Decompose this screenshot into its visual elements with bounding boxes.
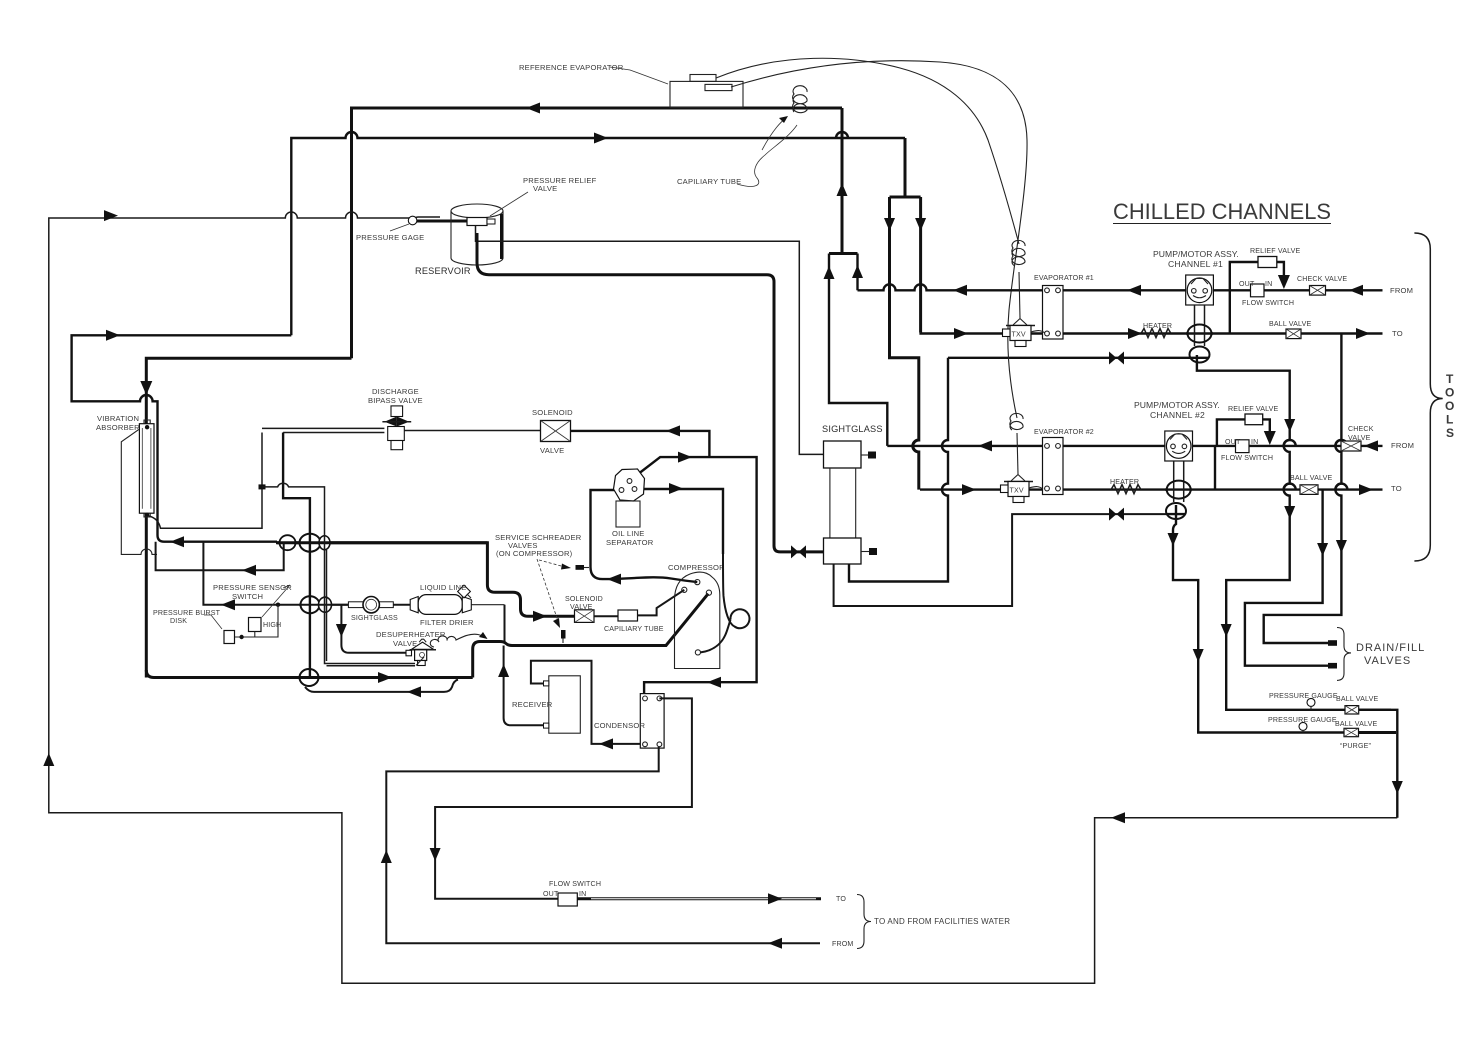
arrow right TO facilities (768, 893, 782, 904)
arrow left suction return (407, 686, 421, 697)
wire liquid line to drier (393, 604, 410, 606)
flow switch water (558, 893, 577, 906)
wire compressor discharge hose (613, 577, 697, 582)
flow switch ch2 (1236, 440, 1250, 453)
liquid line left segment (203, 542, 348, 605)
wire pump2 bottom drop (1173, 519, 1391, 733)
absorber bracket (121, 430, 157, 555)
svg-text:CHECK: CHECK (1348, 425, 1374, 433)
arrow down water out (430, 848, 441, 861)
svg-text:S: S (1446, 426, 1454, 440)
node FROM channel 1 line (858, 284, 1383, 290)
hop FROM2 over x1289.7 (1284, 440, 1296, 446)
wire flow switch to TO facilities (577, 897, 821, 900)
sensing bulb coil at reference evaporator (793, 86, 807, 113)
svg-text:CHECK VALVE: CHECK VALVE (1297, 275, 1347, 283)
reservoir body (451, 211, 503, 265)
wire capillary to compressor port Z (638, 590, 685, 616)
arrow down x1198.2 (1193, 649, 1204, 662)
wire gauge header 1 to purge drop (1359, 710, 1398, 818)
sightglass bottom stub (861, 551, 869, 553)
desuperheater valve (406, 639, 436, 665)
service schreader tick on suction (561, 630, 566, 639)
leader reference evaporator (610, 67, 668, 84)
evaporator 1 ports (1045, 288, 1050, 293)
discharge bypass valve (382, 406, 540, 450)
svg-text:LIQUID LINE: LIQUID LINE (420, 583, 467, 592)
arrow left FROM1 end (1349, 285, 1363, 296)
TXV1 sensing coil (1012, 240, 1025, 266)
arrow left FROM facilities (768, 938, 782, 949)
outer loop thin line from reservoir gauge west (49, 212, 1398, 983)
arrow down relief ch1 (1278, 275, 1290, 289)
leader schreader 2 (539, 560, 565, 567)
leader schreader 1 (537, 559, 559, 624)
reference evaporator top fitting 1 (690, 75, 716, 82)
receiver stubs (544, 681, 549, 686)
wire suction branch right to FROM ch1 (856, 254, 858, 291)
arrow right on reservoir feed line (104, 210, 118, 221)
arrow right TO2 a (962, 484, 976, 495)
leader pressure gage (390, 224, 409, 231)
relief valve ch2 loop (1217, 419, 1270, 446)
svg-text:BALL VALVE: BALL VALVE (1290, 474, 1332, 482)
svg-text:RELIEF VALVE: RELIEF VALVE (1250, 247, 1301, 255)
svg-text:BALL VALVE: BALL VALVE (1335, 720, 1377, 728)
svg-text:HEATER: HEATER (1110, 478, 1139, 486)
svg-text:PUMP/MOTOR ASSY.: PUMP/MOTOR ASSY. (1153, 249, 1239, 259)
service schreader tick on discharge drop (576, 565, 585, 570)
arrow up on left outer loop (43, 753, 54, 766)
svg-text:COMPRESSOR: COMPRESSOR (668, 563, 725, 572)
compressor oil hose with loop (701, 620, 731, 653)
ball valve ch2 (1300, 485, 1318, 495)
svg-text:VALVE: VALVE (570, 603, 593, 611)
discharge bypass double line (262, 428, 384, 432)
reservoir top ellipse (451, 204, 503, 218)
arrow down on evap riser right (915, 218, 926, 231)
junction node high-switch branch (276, 603, 280, 607)
svg-text:PRESSURE BURST: PRESSURE BURST (153, 609, 221, 617)
facilities brace (857, 895, 871, 949)
svg-text:T: T (1446, 372, 1454, 386)
wire reservoir bottom heavy line to purge header (477, 233, 824, 552)
sightglass circle (363, 597, 379, 613)
arrow right TO1 end (1356, 328, 1370, 339)
bowtie valve on crossover ch1 (1109, 352, 1117, 365)
pilot line to thin riser (262, 483, 415, 665)
arrow left on suction line (170, 536, 184, 547)
wire crossover ch1 right part (948, 357, 1192, 359)
svg-text:HEATER: HEATER (1143, 322, 1172, 330)
svg-text:CHANNEL #1: CHANNEL #1 (1168, 259, 1223, 269)
pressure gauge 1 (1307, 698, 1315, 706)
wire condenser water out (435, 698, 692, 898)
svg-text:OIL LINE: OIL LINE (612, 529, 645, 538)
svg-text:HIGH: HIGH (263, 621, 281, 629)
check valve ch2 (1341, 441, 1361, 451)
svg-text:VALVE: VALVE (533, 184, 557, 193)
drain/fill brace (1337, 628, 1351, 681)
leader sensor switch (262, 585, 290, 617)
arrow down x1226.2 (1221, 624, 1232, 637)
wire purge to drop thick (1359, 731, 1397, 734)
arrow right TO1 a (954, 328, 968, 339)
arrow down x1341.4 (1336, 540, 1347, 553)
pressure gauge 2 (1299, 722, 1307, 730)
arrow right lower solenoid feed (533, 611, 547, 622)
svg-text:PRESSURE SENSOR: PRESSURE SENSOR (213, 583, 292, 592)
arrow left trap loop (242, 565, 256, 576)
svg-text:VALVE: VALVE (540, 446, 564, 455)
svg-text:RESERVOIR: RESERVOIR (415, 266, 471, 276)
svg-text:PUMP/MOTOR ASSY.: PUMP/MOTOR ASSY. (1134, 400, 1220, 410)
arrow left FROM2 end (1364, 440, 1378, 451)
TXV1 capillary drop (1019, 272, 1020, 318)
arrow down relief ch2 (1264, 431, 1276, 445)
oil line separator octagon (614, 469, 645, 501)
wire oil separator left branch (591, 490, 622, 579)
relief valve ch1 body (1258, 257, 1277, 268)
riser pump1 from-to (1229, 290, 1231, 333)
wire header H2 (291, 132, 905, 335)
TXV2 capillary drop (1017, 433, 1018, 474)
svg-text:PRESSURE GAUGE: PRESSURE GAUGE (1269, 692, 1338, 700)
union bulges at liquid line crossing (299, 595, 348, 614)
svg-text:PRESSURE GAUGE: PRESSURE GAUGE (1268, 716, 1337, 724)
wire suction branch left to FROM ch2 (829, 254, 887, 446)
wire TO channel 2 line (920, 488, 1383, 490)
pump/motor assy channel 1 (1186, 275, 1214, 305)
wire suction main bottom (146, 670, 472, 678)
wire V3 evaporator feed (904, 138, 907, 197)
arrow down x1289.7 lower (1284, 506, 1295, 519)
wire solenoid to capillary tube (594, 615, 618, 617)
ball valve ch1 (1286, 329, 1301, 339)
wire TO channel 1 line (921, 331, 1383, 334)
pressure burst disk box (224, 631, 235, 644)
arrow down pump2 drop (1168, 533, 1179, 546)
svg-text:TO: TO (836, 895, 846, 903)
evaporator riser pair top bar (890, 196, 921, 199)
svg-text:OUT: OUT (1239, 280, 1255, 288)
arrow left condenser to receiver (599, 738, 613, 749)
pump1 discharge risers (1195, 305, 1205, 325)
svg-text:O: O (1445, 386, 1454, 400)
bowtie valve on sightglass bottom feed (791, 545, 799, 558)
svg-text:DISCHARGE: DISCHARGE (372, 387, 419, 396)
wire bypass inner leg (283, 433, 310, 671)
arrow left FROM1 a (953, 285, 967, 296)
heater channel 1 (1141, 329, 1171, 338)
wire oil separator top branch (631, 457, 757, 694)
capillary sensing curve A to TXV1 coil (716, 58, 1019, 244)
svg-text:CAPILIARY TUBE: CAPILIARY TUBE (604, 625, 664, 633)
svg-text:OUT: OUT (1225, 438, 1241, 446)
svg-text:TXV: TXV (1010, 487, 1024, 495)
svg-text:“PURGE”: “PURGE” (1340, 742, 1371, 750)
wire high switch branch (234, 605, 278, 637)
hop of H2 over V2 (836, 132, 848, 138)
wire TO1 drop x1341.4 (1264, 334, 1342, 644)
junction dot at burst disk (239, 635, 243, 639)
wire FROM facilities (386, 747, 820, 943)
arrow down into absorber (140, 381, 152, 395)
wire evap riser right (919, 197, 922, 333)
svg-text:IN: IN (579, 890, 586, 898)
arrow right suction main (378, 672, 392, 683)
svg-text:SOLENOID: SOLENOID (565, 595, 603, 603)
condenser plate (640, 694, 664, 749)
TXV 2 valve (1001, 475, 1044, 503)
leader burst disk (204, 615, 222, 629)
wire suction return lower (305, 680, 458, 692)
evaporator 2 plate (1043, 438, 1064, 495)
wire TO2 drop x1322.6 (1245, 490, 1328, 666)
svg-text:RELIEF VALVE: RELIEF VALVE (1228, 405, 1279, 413)
evaporator 1 plate (1043, 286, 1064, 340)
wire reservoir relief thin line to sightglass top (476, 226, 824, 455)
sightglass top stub (861, 454, 869, 456)
svg-text:CHANNEL #2: CHANNEL #2 (1150, 410, 1205, 420)
vibration absorber body (139, 420, 154, 517)
bowtie valve on drain crossover ch2 (1109, 508, 1117, 521)
arrow down on purge drop (1392, 781, 1403, 794)
svg-text:IN: IN (1251, 438, 1258, 446)
arrow down x1289.7 upper (1284, 419, 1295, 432)
wire hot gas to solenoid (lower) (277, 543, 575, 617)
svg-text:REFERENCE EVAPORATOR: REFERENCE EVAPORATOR (519, 63, 624, 72)
svg-text:CONDENSOR: CONDENSOR (594, 721, 645, 730)
arrow right oil sep top branch (678, 452, 692, 463)
svg-text:EVAPORATOR #1: EVAPORATOR #1 (1034, 274, 1094, 282)
drain/fill tick 2 (1328, 663, 1337, 669)
arrow left on discharge hose (607, 574, 621, 585)
sightglass suction header bar (829, 252, 858, 255)
svg-text:L: L (1446, 413, 1453, 427)
arrow up suction branch right (852, 265, 863, 278)
wire evap riser left (890, 197, 919, 490)
svg-text:SOLENOID: SOLENOID (532, 408, 573, 417)
svg-text:FROM: FROM (1390, 286, 1413, 295)
wire compressor suction riser (473, 594, 709, 678)
wire solenoid to drop x709.4 (571, 431, 710, 457)
pump2 discharge risers (1174, 461, 1184, 481)
reservoir right heavy wall (500, 214, 503, 259)
hop TO2 over x1289.7 (1284, 484, 1296, 490)
svg-text:CAPILIARY TUBE: CAPILIARY TUBE (677, 177, 741, 186)
arrow left on purge return line (1111, 812, 1125, 823)
sightglass bottom flange (824, 538, 862, 564)
absorber pilot capillary (149, 433, 262, 529)
filter drier (410, 585, 504, 614)
sightglass body (830, 468, 856, 538)
arrow left liquid line (221, 599, 235, 610)
arrow right oil sep right branch (669, 483, 683, 494)
svg-text:VALVE: VALVE (393, 639, 417, 648)
svg-text:EVAPORATOR #2: EVAPORATOR #2 (1034, 428, 1094, 436)
wire receiver return riser (504, 646, 545, 726)
capillary sensing curve B to TXV2 coil (731, 61, 1027, 418)
arrow left condenser feed (707, 677, 721, 688)
svg-text:VIBRATION: VIBRATION (97, 414, 139, 423)
svg-text:BIPASS VALVE: BIPASS VALVE (368, 396, 423, 405)
pump1 coupling bulge lower (1190, 347, 1210, 363)
wire receiver top to condenser (531, 661, 641, 744)
svg-text:CHILLED CHANNELS: CHILLED CHANNELS (1113, 199, 1331, 224)
union bulge at x310 on hot gas line (276, 533, 487, 552)
receiver vessel (549, 676, 581, 733)
oil separator ports (627, 479, 632, 484)
desuperheater bulb coil (430, 634, 486, 647)
sightglass (liquid line) stubs (348, 602, 364, 608)
pump1 coupling bulge upper (1188, 325, 1212, 343)
heater channel 2 (1111, 485, 1141, 494)
relief valve ch2 body (1245, 414, 1263, 425)
arrow left FROM1 b (1127, 285, 1141, 296)
arrow up receiver riser (498, 664, 509, 677)
svg-text:ABSORBER: ABSORBER (96, 423, 140, 432)
wire discharge return leg (72, 335, 292, 541)
svg-text:VALVES: VALVES (1364, 655, 1411, 667)
check valve ch1 (1310, 286, 1326, 296)
svg-text:(ON COMPRESSOR): (ON COMPRESSOR) (496, 549, 573, 558)
wire V1 elbow to vibration absorber (146, 358, 351, 677)
TXV2 sensing coil (1010, 413, 1023, 430)
svg-text:FROM: FROM (832, 940, 853, 948)
flow switch ch1 (1251, 284, 1265, 297)
drain/fill tick 1 (1328, 640, 1337, 646)
capillary arrowhead (762, 118, 786, 150)
evaporator 2 ports (1045, 444, 1050, 449)
svg-text:DRAIN/FILL: DRAIN/FILL (1356, 642, 1425, 654)
compressor ports (695, 580, 700, 585)
svg-text:BALL VALVE: BALL VALVE (1269, 320, 1311, 328)
wire FROM channel 2 line (887, 445, 1382, 447)
junction tick pilot (259, 484, 266, 489)
arrow down x1322.6 (1317, 543, 1328, 556)
pressure relief valve body (467, 218, 487, 226)
TXV 1 valve (1003, 319, 1046, 347)
wire top hot-gas header H1 (352, 108, 843, 358)
arrow down desuper branch (336, 624, 347, 637)
desuperheater feed branch (341, 605, 410, 653)
capillary tube block (618, 610, 638, 621)
wire sightglass drain (834, 514, 1169, 606)
wire V2 down to sightglass header bar (841, 108, 844, 254)
wire liquid line drop to receiver junction (504, 605, 506, 642)
solenoid valve top (541, 421, 571, 442)
arrow right on return leg (106, 330, 120, 341)
svg-text:SWITCH: SWITCH (232, 592, 263, 601)
wire crossover riser x948 down to sightglass drain (849, 358, 948, 582)
svg-text:TO AND FROM FACILITIES WAT: TO AND FROM FACILITIES WATER (874, 917, 1010, 926)
capillary tube curve near reservoir (737, 125, 797, 186)
condenser ports (643, 696, 648, 701)
arrow up suction branch left (824, 266, 835, 279)
high pressure switch box (249, 618, 262, 632)
sightglass top flange (824, 441, 862, 468)
svg-text:PRESSURE GAGE: PRESSURE GAGE (356, 233, 424, 242)
arrow right TO2 end (1359, 484, 1373, 495)
ball valve purge header 1 (1345, 706, 1359, 714)
hop TO2 over x1341.4 (1335, 484, 1347, 490)
svg-text:O: O (1445, 399, 1454, 413)
arrow up water return riser (381, 850, 392, 863)
arrow right on H2 (594, 133, 608, 144)
suction trap loop (156, 542, 284, 571)
wire oil separator right branch (635, 489, 724, 554)
arrow left FROM2 a (978, 440, 992, 451)
svg-text:DESUPERHEATER: DESUPERHEATER (376, 630, 446, 639)
svg-text:SIGHTGLASS: SIGHTGLASS (351, 614, 398, 622)
arrow down on evap riser left (884, 218, 895, 231)
svg-text:OUT: OUT (543, 890, 559, 898)
svg-text:RECEIVER: RECEIVER (512, 700, 553, 709)
svg-text:BALL VALVE: BALL VALVE (1336, 695, 1378, 703)
leader pressure relief valve (490, 192, 528, 216)
pressure gage circle (408, 216, 417, 225)
pump/motor assy channel 2 (1165, 431, 1193, 461)
ball valve purge (1344, 728, 1359, 736)
svg-text:FLOW SWITCH: FLOW SWITCH (549, 880, 601, 888)
wire pump1 bottom to cross header (1197, 363, 1391, 710)
svg-text:TO: TO (1392, 329, 1403, 338)
svg-text:FILTER DRIER: FILTER DRIER (420, 618, 474, 627)
reference evaporator top fitting 2 (705, 84, 732, 90)
svg-text:DISK: DISK (170, 617, 187, 625)
svg-text:TO: TO (1391, 484, 1402, 493)
reference evaporator box (670, 81, 743, 107)
svg-text:VALVE: VALVE (1348, 434, 1371, 442)
pump2 coupling bulge lower (1166, 503, 1186, 519)
svg-text:TXV: TXV (1012, 331, 1026, 339)
riser pump2 from-to (1214, 446, 1216, 490)
svg-text:FROM: FROM (1391, 441, 1414, 450)
arrow right TO1 b (1128, 328, 1142, 339)
compressor body (675, 572, 720, 668)
hop FROM2 over x1341.4 (1335, 440, 1347, 446)
arrow left on H1 (526, 103, 540, 114)
arrow up on V2 (837, 183, 848, 196)
union bulge suction at x306 (300, 669, 319, 686)
oil hose loop circle (723, 554, 749, 628)
svg-text:SIGHTGLASS: SIGHTGLASS (822, 424, 883, 434)
pump2 coupling bulge upper (1167, 481, 1191, 499)
arrow left on bypass line (666, 425, 680, 436)
svg-text:SEPARATOR: SEPARATOR (606, 538, 654, 547)
svg-text:FLOW SWITCH: FLOW SWITCH (1242, 299, 1294, 307)
svg-text:IN: IN (1265, 280, 1272, 288)
solenoid valve lower (575, 610, 595, 623)
relief valve ch1 loop (1230, 262, 1284, 290)
svg-text:FLOW SWITCH: FLOW SWITCH (1221, 454, 1273, 462)
oil separator sump (616, 501, 640, 527)
TOOLS brace (1414, 233, 1442, 561)
